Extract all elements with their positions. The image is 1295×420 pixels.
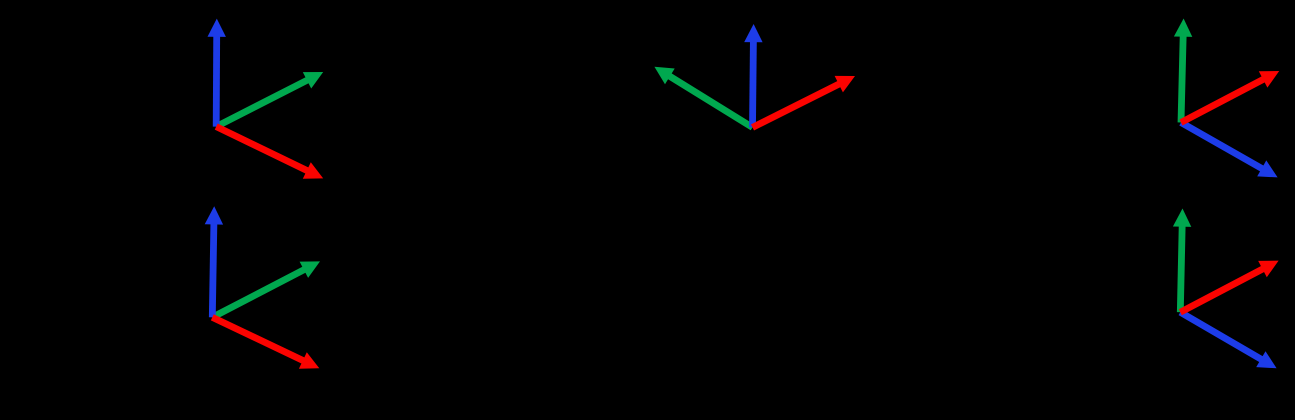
frame C (top-middle) y-axis (green) (654, 67, 752, 128)
frame E (bottom-right) y-axis (blue) (1180, 312, 1276, 368)
frame B (bottom-left) x-axis (red) (212, 317, 319, 369)
frame D (top-right) y-axis (blue) (1181, 123, 1278, 178)
frame A (top-left) origin (216,127) (208, 19, 324, 179)
frame B (bottom-left) y-axis (green) (212, 261, 320, 317)
frame D (top-right) origin (1181,122) (1174, 19, 1279, 178)
frame B (bottom-left) z-axis (blue) (205, 206, 223, 317)
frame A (top-left) x-axis (red) (216, 127, 323, 179)
frame B (bottom-left) origin (212,317) (205, 206, 320, 369)
frame E (bottom-right) z-axis (green) (1173, 209, 1191, 313)
frame C (top-middle) origin (752,127) (654, 24, 855, 127)
frame D (top-right) x-axis (red) (1181, 71, 1279, 123)
frame C (top-middle) x-axis (red) (753, 76, 856, 128)
frame A (top-left) y-axis (green) (216, 72, 323, 127)
frame D (top-right) z-axis (green) (1174, 19, 1192, 123)
frame A (top-left) z-axis (blue) (208, 19, 226, 127)
frame C (top-middle) z-axis (blue) (744, 24, 762, 127)
frame E (bottom-right) origin (1180,312) (1173, 209, 1279, 369)
frame E (bottom-right) x-axis (red) (1180, 261, 1278, 313)
